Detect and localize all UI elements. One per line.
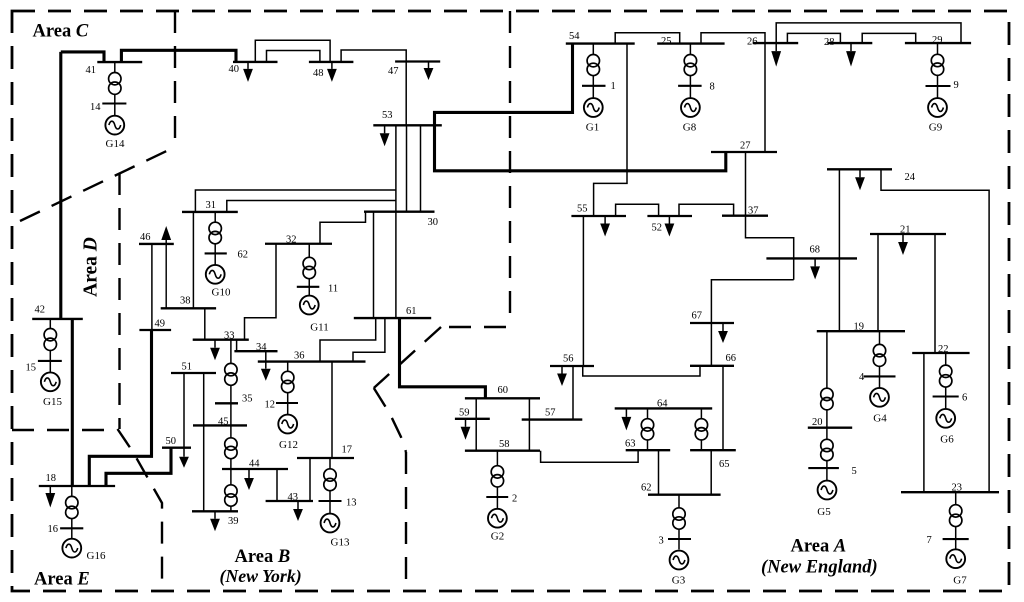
svg-text:G4: G4 xyxy=(873,413,887,425)
svg-text:23: 23 xyxy=(952,483,963,494)
svg-text:G5: G5 xyxy=(817,506,831,518)
svg-text:53: 53 xyxy=(382,110,393,121)
svg-text:25: 25 xyxy=(661,36,672,47)
svg-text:3: 3 xyxy=(659,536,664,547)
svg-text:45: 45 xyxy=(218,417,229,428)
svg-text:Area A: Area A xyxy=(791,537,847,557)
svg-text:31: 31 xyxy=(206,200,217,211)
svg-text:18: 18 xyxy=(46,473,57,484)
svg-text:Area E: Area E xyxy=(34,570,90,590)
svg-text:G8: G8 xyxy=(683,122,697,134)
svg-text:4: 4 xyxy=(859,372,865,383)
svg-text:6: 6 xyxy=(962,393,967,404)
svg-text:55: 55 xyxy=(577,204,588,215)
svg-text:G14: G14 xyxy=(106,138,125,150)
svg-text:38: 38 xyxy=(180,296,191,307)
svg-text:62: 62 xyxy=(238,250,249,261)
svg-text:56: 56 xyxy=(563,354,574,365)
svg-text:1: 1 xyxy=(611,81,616,92)
svg-text:G10: G10 xyxy=(212,287,231,299)
svg-text:(New York): (New York) xyxy=(220,566,302,587)
svg-text:9: 9 xyxy=(954,80,959,91)
svg-text:12: 12 xyxy=(265,400,276,411)
svg-text:42: 42 xyxy=(35,305,46,316)
svg-text:30: 30 xyxy=(428,217,439,228)
svg-text:24: 24 xyxy=(905,172,916,183)
svg-text:G2: G2 xyxy=(491,531,504,543)
svg-text:G7: G7 xyxy=(953,575,967,587)
svg-text:43: 43 xyxy=(288,492,299,503)
svg-text:32: 32 xyxy=(286,235,297,246)
svg-text:G12: G12 xyxy=(279,439,298,451)
svg-text:65: 65 xyxy=(719,459,730,470)
svg-text:26: 26 xyxy=(747,37,758,48)
svg-text:G15: G15 xyxy=(43,396,62,408)
svg-text:35: 35 xyxy=(242,394,253,405)
svg-text:G16: G16 xyxy=(87,550,106,562)
svg-text:49: 49 xyxy=(155,319,166,330)
svg-text:G6: G6 xyxy=(940,434,954,446)
svg-text:54: 54 xyxy=(569,31,580,42)
svg-text:51: 51 xyxy=(182,362,193,373)
svg-text:16: 16 xyxy=(48,524,59,535)
svg-text:7: 7 xyxy=(927,535,932,546)
svg-text:37: 37 xyxy=(748,206,759,217)
svg-text:59: 59 xyxy=(459,408,470,419)
svg-text:60: 60 xyxy=(498,385,509,396)
svg-text:(New England): (New England) xyxy=(761,558,878,578)
svg-text:50: 50 xyxy=(166,436,177,447)
svg-text:28: 28 xyxy=(824,37,835,48)
svg-text:33: 33 xyxy=(224,331,235,342)
svg-text:66: 66 xyxy=(726,353,737,364)
svg-text:47: 47 xyxy=(388,66,399,77)
svg-text:11: 11 xyxy=(328,284,338,295)
svg-text:67: 67 xyxy=(692,311,703,322)
svg-text:52: 52 xyxy=(652,223,663,234)
svg-text:19: 19 xyxy=(854,322,865,333)
svg-text:15: 15 xyxy=(26,363,37,374)
svg-text:G1: G1 xyxy=(586,122,599,134)
svg-text:20: 20 xyxy=(812,417,823,428)
svg-text:34: 34 xyxy=(256,342,267,353)
svg-text:G3: G3 xyxy=(672,575,686,587)
svg-text:46: 46 xyxy=(140,232,151,243)
svg-text:13: 13 xyxy=(346,498,357,509)
svg-text:41: 41 xyxy=(86,65,97,76)
svg-text:Area B: Area B xyxy=(235,547,291,567)
svg-text:58: 58 xyxy=(499,439,510,450)
svg-text:G13: G13 xyxy=(331,537,350,549)
svg-text:G9: G9 xyxy=(929,122,943,134)
svg-text:21: 21 xyxy=(900,225,911,236)
svg-text:27: 27 xyxy=(740,141,751,152)
svg-text:63: 63 xyxy=(625,439,636,450)
svg-text:57: 57 xyxy=(545,408,556,419)
svg-text:17: 17 xyxy=(342,445,353,456)
svg-text:48: 48 xyxy=(313,68,324,79)
svg-text:62: 62 xyxy=(641,483,652,494)
svg-text:14: 14 xyxy=(90,102,101,113)
svg-text:Area D: Area D xyxy=(81,237,102,297)
svg-text:8: 8 xyxy=(710,82,715,93)
svg-text:39: 39 xyxy=(228,516,239,527)
svg-text:2: 2 xyxy=(512,494,517,505)
svg-text:40: 40 xyxy=(229,64,240,75)
svg-text:Area C: Area C xyxy=(33,22,89,42)
svg-text:22: 22 xyxy=(938,344,949,355)
svg-text:29: 29 xyxy=(932,35,943,46)
svg-text:5: 5 xyxy=(852,466,857,477)
svg-text:61: 61 xyxy=(406,306,417,317)
svg-text:44: 44 xyxy=(249,459,260,470)
svg-text:64: 64 xyxy=(657,399,668,410)
svg-text:G11: G11 xyxy=(310,322,329,334)
svg-text:68: 68 xyxy=(810,245,821,256)
svg-text:36: 36 xyxy=(294,351,305,362)
